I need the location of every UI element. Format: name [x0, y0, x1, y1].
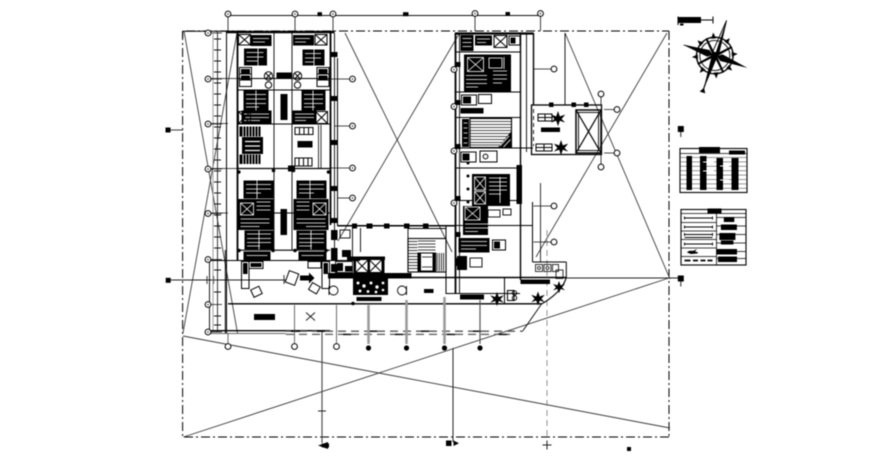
top stems	[228, 16, 541, 31]
wall secondary left	[226, 31, 228, 333]
parcel boundary top	[186, 30, 669, 32]
terrace x mark	[306, 313, 315, 321]
unit divider y78.5	[237, 78, 330, 80]
table 1	[680, 147, 747, 193]
right wing right circles	[551, 66, 557, 72]
washer X-box B left	[239, 112, 251, 124]
parcel boundary left	[182, 31, 184, 437]
dim line y123.5 exts	[209, 124, 353, 127]
wall x446	[445, 225, 447, 294]
kitchen B left	[242, 111, 272, 124]
window box mid 2	[295, 158, 312, 166]
wall y90	[237, 89, 330, 91]
bottom band box	[493, 240, 506, 250]
black bar right mid	[298, 141, 313, 148]
elevator X-box 1	[356, 260, 369, 273]
dashed band dark segs	[291, 331, 507, 334]
B door symbol	[508, 291, 517, 301]
bottom filled node dots	[366, 345, 483, 350]
corridor bar lower	[281, 209, 288, 235]
black bar annex	[541, 128, 560, 133]
left marker line	[171, 279, 286, 281]
stair treads	[470, 122, 512, 146]
wall courtyard side x330	[330, 33, 332, 225]
stair left dark	[462, 119, 469, 147]
left cell bars	[685, 217, 713, 246]
gray stem 406	[405, 300, 408, 344]
wall x565 seg	[565, 262, 567, 278]
star plant 2	[531, 292, 545, 306]
top unit blob 1	[461, 35, 474, 51]
bar east	[521, 280, 551, 285]
right wing left circles	[451, 67, 457, 73]
bed A left	[244, 49, 267, 66]
stair comb lower	[240, 155, 261, 165]
right marker lower with line	[565, 277, 678, 279]
column 5	[352, 224, 357, 229]
plant star 1	[551, 111, 565, 126]
stair comb upper	[240, 127, 261, 137]
wall y262	[533, 261, 567, 263]
table 2	[681, 209, 746, 266]
ring spikes	[687, 27, 743, 83]
toilet boxes	[536, 265, 559, 272]
shaft side strips	[354, 259, 357, 274]
corridor bar upper	[281, 94, 288, 120]
window box mid 1	[295, 128, 313, 135]
left circle stems	[211, 33, 222, 332]
wall x565 upper	[564, 33, 566, 105]
annex circles	[598, 91, 604, 97]
window symbol 1	[538, 114, 552, 121]
diagonal left strip 2	[183, 33, 237, 333]
courtyard diagonal 2	[338, 34, 459, 241]
lobby bullets	[237, 249, 328, 253]
bath core 3	[463, 206, 488, 235]
bottom area diagonal 2	[184, 278, 670, 437]
terrace wall y330.7	[208, 330, 330, 332]
wall right wing east x526	[526, 33, 528, 152]
right marker upper	[678, 126, 684, 132]
washer X-box A right	[315, 35, 327, 46]
stem 336	[336, 305, 338, 343]
tick at bottom of 545	[543, 441, 552, 450]
stair top lines	[418, 241, 436, 250]
dim line y198 right	[338, 197, 353, 199]
divider y225.5	[456, 225, 533, 227]
row6 dashes	[685, 260, 713, 262]
door arc left	[329, 286, 338, 295]
unit2 bar	[461, 108, 484, 114]
bed D right bottom	[299, 252, 327, 261]
bed A right	[303, 50, 325, 66]
dim line y168.5 exts	[209, 167, 353, 170]
cluster D right	[297, 231, 327, 250]
top unit blob 2	[475, 36, 492, 46]
unit3 box2	[480, 151, 497, 162]
divider y200.5	[456, 200, 520, 202]
bed C left	[244, 181, 274, 199]
parcel boundary right	[668, 31, 670, 437]
column 2	[384, 224, 390, 229]
curved corner	[542, 277, 567, 304]
kitchen blob A right	[293, 35, 314, 46]
wall right wing east x520	[520, 33, 522, 280]
elevator left	[242, 137, 263, 154]
unit divider y168.5	[237, 168, 330, 170]
wall lobby left x225	[224, 250, 226, 333]
bottom area diagonal 1	[183, 336, 670, 428]
dashed door east	[533, 109, 535, 146]
bath core 2	[472, 174, 510, 206]
lobby desk 2	[308, 262, 330, 289]
top dim line	[226, 15, 542, 17]
divider y117.5	[456, 117, 520, 119]
lobby chair 2	[309, 283, 321, 294]
right area diagonal 2	[536, 33, 667, 257]
elevator shaft box	[576, 110, 601, 153]
bed D left bottom	[244, 252, 271, 261]
wall courtyard double x334	[334, 33, 336, 248]
dashed band line 2	[286, 333, 510, 335]
washer X-box B right	[316, 112, 328, 124]
stair inner lift	[418, 253, 436, 271]
elevator X-box 2	[369, 260, 382, 273]
desk A left	[240, 68, 252, 87]
plant star 2	[554, 140, 568, 155]
cluster D left	[245, 231, 274, 250]
bed C right	[297, 181, 327, 199]
column 1	[367, 224, 373, 229]
top unit box4	[509, 36, 520, 45]
stair treads right	[437, 253, 444, 271]
top-left baseline	[183, 30, 238, 32]
corridor wall east	[291, 33, 293, 250]
entry arrow	[300, 273, 315, 284]
parcel boundary bottom	[184, 436, 669, 438]
bed B left	[244, 91, 269, 111]
wall x540	[540, 183, 542, 262]
bar right of stairs	[424, 289, 434, 293]
dim line y213 left	[209, 212, 228, 214]
bed B right	[302, 91, 326, 111]
courtyard diagonal 1	[345, 33, 452, 252]
scatter boxes	[488, 210, 500, 217]
unit3 box1	[461, 152, 476, 162]
right cell blocks	[724, 217, 735, 222]
elevator prechamber	[336, 262, 353, 273]
bar below machine	[357, 297, 382, 301]
solid band	[328, 273, 412, 279]
dining table A right	[293, 72, 301, 88]
small room wall	[353, 228, 361, 260]
diagonal left strip 1	[184, 31, 238, 333]
section line x=453	[452, 348, 454, 442]
core C left	[238, 199, 274, 230]
left edge marker square	[166, 278, 171, 283]
top wall right wing	[455, 32, 534, 34]
east needle	[716, 53, 750, 70]
kitchen blob A left	[251, 35, 272, 46]
lobby wall y260.5	[209, 260, 360, 262]
section arrow marker left	[318, 442, 329, 449]
corridor wall west	[273, 33, 275, 250]
right area diagonal 1	[565, 33, 670, 279]
divider y168	[456, 167, 520, 169]
divider y148	[456, 147, 533, 149]
star plant 1	[490, 292, 504, 306]
east wall y277	[412, 277, 567, 279]
door arc right	[398, 286, 407, 295]
wall right wing outer x533	[533, 33, 535, 105]
top tick marks	[318, 12, 323, 16]
section line x=322	[321, 331, 323, 443]
bullet	[351, 302, 355, 306]
door bullets mid	[237, 169, 330, 174]
dimension chain vertical x219	[217, 31, 219, 332]
stair well outline	[470, 119, 512, 148]
stair upper room	[408, 225, 446, 239]
annex circle stems	[601, 97, 614, 164]
stair block outline	[408, 239, 446, 273]
small dot marker	[627, 447, 631, 451]
kitchen B right	[293, 111, 317, 124]
corridor double wall mid	[319, 125, 322, 168]
west needle	[682, 42, 714, 58]
annex outline	[532, 105, 602, 155]
wall courtyard double x337	[337, 58, 339, 226]
ticks on chain	[214, 39, 221, 325]
terrace bar	[254, 314, 275, 320]
intercardinal diamonds	[698, 38, 732, 72]
left wing right column circles	[350, 76, 356, 82]
top row circles	[225, 11, 231, 17]
left wall piers	[455, 62, 461, 266]
wall right wing left	[455, 33, 457, 294]
bottom open circles	[225, 344, 231, 350]
dim line y78.5 left ext	[209, 78, 353, 81]
black service bar	[517, 165, 523, 204]
stem 472	[479, 300, 481, 344]
star plant 3	[553, 281, 565, 293]
unit divider y213	[237, 212, 330, 214]
dining table A left	[264, 72, 272, 88]
left edge marker upper	[166, 128, 171, 133]
column 4	[423, 224, 429, 229]
scale bar	[678, 17, 713, 26]
lobby tilted box	[285, 271, 299, 286]
lobby desk 1	[242, 262, 264, 289]
washer X-box A left	[239, 35, 251, 46]
divider y92	[456, 91, 520, 93]
gray stem 368	[367, 305, 370, 344]
corridor blob A	[277, 73, 292, 80]
lobby top wall	[237, 249, 330, 251]
corridor bullets	[467, 162, 470, 216]
fixtures bar south	[460, 295, 484, 300]
section marker square+arrow	[446, 441, 452, 447]
desk A right	[317, 68, 329, 87]
south needle	[701, 55, 718, 92]
wall y293.5	[446, 293, 520, 295]
bath core 1	[464, 55, 511, 92]
wall left wing outer left	[237, 33, 239, 260]
corner black mid	[288, 166, 295, 172]
stair hatch triangle	[498, 131, 512, 148]
courtyard wall piers	[330, 52, 338, 272]
top wall	[227, 31, 335, 33]
wall lobby left x209	[209, 262, 211, 333]
right wing circle stems	[534, 69, 552, 242]
stem 226	[227, 333, 229, 343]
column 3	[404, 224, 410, 229]
gray stem 444	[443, 297, 446, 344]
divider y52	[456, 51, 520, 53]
unit2 box1	[462, 95, 477, 105]
annex column ticks	[549, 103, 554, 108]
parcel corner tick	[182, 31, 184, 38]
closet	[556, 270, 563, 279]
south wall diagonal end	[504, 278, 506, 305]
terrace wall thin	[208, 333, 286, 335]
section line x=545	[546, 230, 548, 437]
unit divider y124	[237, 123, 330, 125]
lobby chair 1	[251, 286, 263, 297]
wall x532 lower	[532, 202, 534, 262]
machine room cluster	[353, 279, 388, 296]
top unit box3	[494, 36, 507, 48]
left column circles	[205, 30, 211, 36]
main south wall	[228, 303, 542, 305]
stair treads left	[408, 242, 418, 269]
bottom band blob	[459, 238, 490, 253]
row5 icon	[687, 249, 698, 254]
core C right	[294, 199, 329, 230]
compass rose	[671, 10, 760, 104]
window symbol 2	[536, 144, 552, 151]
stem 294	[294, 305, 296, 343]
below band fixtures	[457, 256, 467, 270]
dashed band line 1	[286, 330, 523, 332]
north needle	[711, 19, 729, 58]
unit2 box2	[479, 95, 492, 104]
wall right wing left inner	[459, 33, 461, 294]
courtyard bottom wall	[338, 225, 457, 227]
